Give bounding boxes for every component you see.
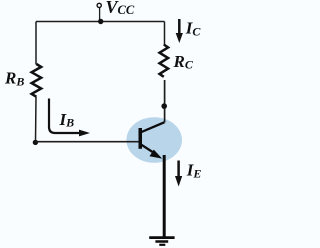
label IE xyxy=(186,161,202,181)
wire collector vertical xyxy=(164,80,166,123)
wire emitter vertical xyxy=(163,155,166,237)
transistor Q1 collector lead xyxy=(142,122,165,132)
label VCC xyxy=(106,0,135,17)
current arrow IC xyxy=(176,19,183,43)
current arrow IB xyxy=(49,99,90,137)
label RC xyxy=(173,52,194,72)
resistor RB xyxy=(32,64,42,97)
label RB xyxy=(4,69,24,89)
resistor RC xyxy=(160,45,169,77)
VCC terminal circle xyxy=(97,3,101,7)
wire left vertical upper xyxy=(35,22,37,65)
wire top rail xyxy=(36,21,165,23)
wire left vertical lower xyxy=(35,97,38,142)
label IB xyxy=(59,110,75,130)
current arrow IE xyxy=(175,161,182,187)
transistor Q1 base bar xyxy=(139,128,143,149)
node dot VCC junction xyxy=(98,19,103,24)
transistor highlight ellipse xyxy=(126,117,182,163)
transistor Q1 emitter lead with arrow xyxy=(142,145,163,159)
node dot base corner xyxy=(33,140,38,145)
wire VCC stub xyxy=(99,7,101,21)
label IC xyxy=(185,19,202,39)
ground symbol xyxy=(149,238,174,245)
wire right vertical upper xyxy=(164,22,166,46)
svg-text:VCC: VCC xyxy=(106,0,135,17)
node dot collector xyxy=(161,103,167,109)
wire base horizontal xyxy=(35,141,138,143)
